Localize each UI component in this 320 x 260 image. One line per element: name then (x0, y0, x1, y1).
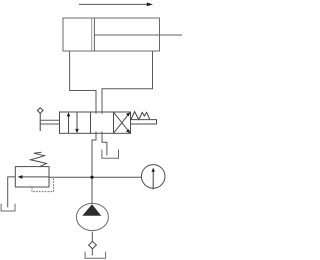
junction node (90, 176, 93, 179)
valve position divider 2 (113, 112, 115, 133)
wire from cylinder cap-end port to valve port A (70, 51, 96, 114)
piston (92, 18, 95, 50)
motion direction arrow (79, 3, 153, 7)
relief valve spring (31, 152, 47, 166)
relief valve outlet wire to tank (8, 177, 16, 208)
wire from cylinder rod-end port to valve port B (102, 51, 153, 114)
pressure gauge (141, 165, 165, 190)
lever actuator rod (39, 113, 41, 131)
valve left cell down-arrow (75, 112, 79, 133)
wire valve port P down to main pressure line (92, 132, 96, 204)
relief valve internal flow arrow (18, 175, 49, 179)
pump suction wire (91, 232, 93, 242)
wire valve port T to tank (102, 132, 107, 156)
valve return spring (131, 112, 150, 120)
pressure relief valve body (15, 167, 49, 187)
manifold wire: relief valve to junction to gauge (49, 176, 141, 178)
pump (76, 203, 108, 230)
lever actuator knob (37, 108, 43, 114)
cylinder body (63, 18, 160, 51)
reservoir tank under pump (85, 252, 106, 259)
valve left cell up-arrow (67, 112, 71, 133)
filter diamond (89, 241, 97, 248)
valve crossed-flow X diagonal 2 (114, 112, 131, 133)
piston rod (94, 34, 182, 36)
relief valve pilot line (dashed) (32, 177, 54, 191)
directional valve body (60, 112, 131, 133)
tank at relief valve outlet (1, 204, 15, 211)
tank at valve T-port (102, 150, 119, 159)
valve plunger rectangle (131, 120, 157, 124)
wire filter to tank (91, 249, 93, 256)
valve position divider 1 (90, 112, 92, 133)
lever actuator fork lines (40, 120, 59, 124)
valve crossed-flow X diagonal 1 (114, 112, 131, 133)
